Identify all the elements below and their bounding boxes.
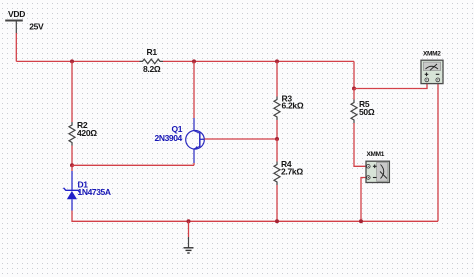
wire base to R3/R4 node xyxy=(205,138,278,140)
svg-text:2N3904: 2N3904 xyxy=(155,133,183,143)
svg-text:XMM2: XMM2 xyxy=(423,50,441,57)
svg-text:50Ω: 50Ω xyxy=(359,107,375,117)
wire base node to R4 xyxy=(276,139,278,162)
resistor R5 xyxy=(351,99,375,123)
wire D1 lead and bottom rail xyxy=(72,211,438,222)
wire R5 upper lead xyxy=(353,89,355,100)
wire R5 to XMM1 top terminal xyxy=(354,123,366,166)
svg-text:6.2kΩ: 6.2kΩ xyxy=(282,101,304,111)
node junction XMM1 bottom xyxy=(359,219,363,223)
wire R2 branch lower xyxy=(71,146,73,166)
resistor R2 xyxy=(69,120,97,146)
resistor R4 xyxy=(274,159,303,185)
svg-text:2.7kΩ: 2.7kΩ xyxy=(281,167,303,177)
wire collector branch xyxy=(193,61,195,118)
svg-text:VDD: VDD xyxy=(8,9,25,19)
svg-text:25V: 25V xyxy=(29,22,44,32)
resistor R3 xyxy=(274,93,304,120)
svg-text:1N4735A: 1N4735A xyxy=(78,187,111,197)
node junction ground xyxy=(187,219,191,223)
node junction top rail / R3 branch xyxy=(275,59,279,63)
wire emitter net horizontal xyxy=(72,164,194,166)
svg-text:R1: R1 xyxy=(147,47,158,57)
wire top rail right of R1 xyxy=(163,60,354,62)
wire R4 to bottom rail xyxy=(276,185,278,221)
node junction R5 / XMM2 xyxy=(352,87,356,91)
node junction emitter net left xyxy=(70,163,74,167)
wire R3 branch upper xyxy=(276,61,278,96)
node junction top rail / R2 branch xyxy=(70,59,74,63)
wire top rail left of R1 xyxy=(16,60,139,62)
resistor R1 xyxy=(140,47,164,74)
wire R3 to base node xyxy=(276,120,278,139)
transistor Q1 xyxy=(155,118,205,163)
wire XMM1 bottom terminal to bottom rail xyxy=(361,178,366,222)
power symbol VDD xyxy=(5,9,44,33)
zener diode D1 xyxy=(64,171,111,211)
wire emitter node to D1 xyxy=(71,165,73,171)
node junction R4 bottom xyxy=(275,219,279,223)
svg-text:XMM1: XMM1 xyxy=(367,151,385,158)
wire top rail corner down to R5 node xyxy=(353,61,355,88)
wire emitter lead to net xyxy=(193,163,195,165)
wire R2 branch upper xyxy=(71,61,73,122)
wire VDD stub down xyxy=(15,33,17,61)
node junction top rail / collector branch xyxy=(192,59,196,63)
node junction base net xyxy=(275,137,279,141)
wire right vertical from XMM2 right terminal xyxy=(437,84,439,222)
wire to XMM2 left terminal xyxy=(354,84,427,89)
ground xyxy=(184,221,194,253)
svg-text:8.2Ω: 8.2Ω xyxy=(143,64,161,74)
svg-text:420Ω: 420Ω xyxy=(77,128,97,138)
multimeter XMM2 xyxy=(421,50,443,83)
multimeter XMM1 xyxy=(366,151,389,183)
